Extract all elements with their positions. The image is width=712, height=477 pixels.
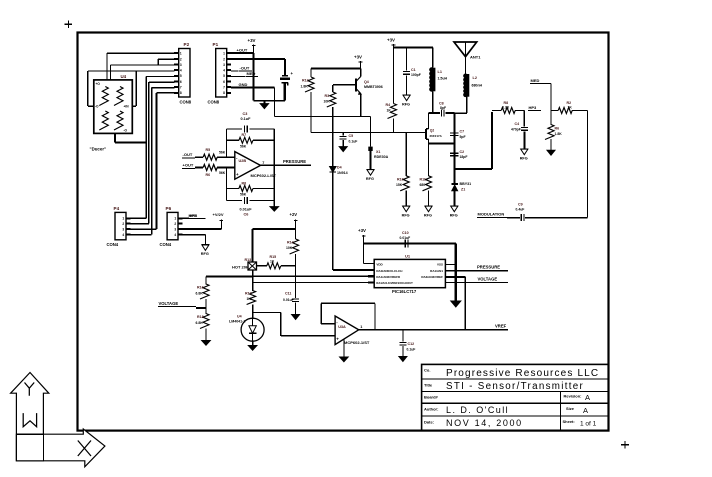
svg-text:1.8K: 1.8K [555, 132, 563, 136]
svg-text:0.01uF: 0.01uF [283, 298, 294, 302]
svg-text:RFG: RFG [201, 252, 209, 256]
svg-text:7: 7 [262, 161, 264, 165]
svg-text:RDE30A: RDE30A [374, 155, 389, 159]
svg-text:1: 1 [180, 52, 182, 56]
svg-text:RA1/AN1: RA1/AN1 [430, 269, 443, 273]
svg-text:56K: 56K [219, 151, 226, 155]
svg-text:PRESSURE: PRESSURE [477, 265, 500, 270]
svg-text:C6: C6 [244, 212, 249, 216]
svg-text:RFG: RFG [450, 214, 458, 218]
svg-text:0.4uF: 0.4uF [516, 207, 525, 211]
svg-text:U4: U4 [121, 74, 127, 79]
svg-text:3.3K: 3.3K [502, 105, 510, 109]
svg-text:MMBT3906: MMBT3906 [364, 85, 383, 89]
svg-text:R16: R16 [197, 286, 204, 290]
svg-text:P2: P2 [184, 42, 190, 47]
svg-text:8: 8 [180, 91, 182, 95]
svg-text:+3V: +3V [354, 54, 362, 59]
svg-text:C3: C3 [243, 112, 248, 116]
svg-text:+OUT: +OUT [237, 48, 248, 53]
svg-text:Q4: Q4 [364, 80, 369, 84]
svg-text:P4: P4 [114, 206, 120, 211]
svg-text:MCP602-1/ST: MCP602-1/ST [344, 340, 370, 345]
svg-text:+2V: +2V [290, 212, 298, 217]
svg-text:-OUT: -OUT [183, 152, 193, 157]
svg-text:R10: R10 [397, 177, 404, 181]
svg-text:C9: C9 [518, 202, 523, 206]
svg-text:CON4: CON4 [107, 242, 119, 247]
svg-text:R6: R6 [206, 173, 211, 177]
svg-text:STI - Sensor/Transmitter: STI - Sensor/Transmitter [446, 381, 584, 392]
svg-text:+3V: +3V [358, 228, 366, 233]
svg-text:R6: R6 [555, 126, 560, 130]
svg-text:RFG: RFG [520, 157, 528, 161]
svg-text:+: + [236, 172, 239, 177]
svg-text:LM4041-1: LM4041-1 [229, 320, 245, 324]
svg-text:56K: 56K [240, 193, 247, 197]
svg-text:+3V: +3V [248, 38, 256, 43]
svg-text:56K: 56K [219, 171, 226, 175]
svg-text:+: + [336, 337, 339, 342]
svg-text:100pF: 100pF [411, 73, 421, 77]
svg-text:P1: P1 [213, 42, 219, 47]
svg-text:8pF: 8pF [440, 106, 446, 110]
svg-text:GND: GND [239, 82, 248, 87]
svg-text:+O: +O [96, 82, 101, 86]
svg-text:3: 3 [174, 228, 176, 232]
svg-text:PRESSURE: PRESSURE [283, 159, 306, 164]
svg-text:Progressive Resources LLC: Progressive Resources LLC [446, 368, 599, 379]
svg-text:680nH: 680nH [472, 84, 483, 88]
svg-text:C8: C8 [439, 102, 444, 106]
svg-text:R13: R13 [245, 258, 252, 262]
svg-text:RA1/AN2/VREFD: RA1/AN2/VREFD [376, 275, 401, 279]
svg-text:HOT 20K: HOT 20K [232, 264, 249, 269]
svg-text:C10: C10 [402, 231, 409, 235]
svg-text:C4: C4 [515, 122, 520, 126]
svg-text:1K: 1K [387, 109, 392, 113]
svg-text:18pF: 18pF [460, 155, 468, 159]
svg-text:L1: L1 [438, 70, 442, 74]
svg-text:6.8K: 6.8K [196, 291, 204, 295]
svg-text:R18: R18 [197, 315, 204, 319]
svg-text:-O: -O [95, 105, 99, 109]
svg-text:+V/2V: +V/2V [213, 212, 224, 217]
svg-text:10K: 10K [324, 100, 331, 104]
svg-text:-OUT: -OUT [240, 65, 250, 70]
svg-text:2: 2 [180, 57, 182, 61]
svg-text:680: 680 [420, 183, 426, 187]
svg-text:HP3: HP3 [190, 213, 199, 218]
svg-text:4: 4 [180, 69, 182, 73]
svg-text:R5: R5 [206, 148, 211, 152]
svg-text:CON8: CON8 [208, 100, 220, 105]
svg-text:VREF: VREF [495, 324, 507, 329]
svg-text:RFG: RFG [402, 214, 410, 218]
svg-text:+OUT: +OUT [183, 163, 194, 168]
svg-text:-O: -O [124, 129, 128, 133]
svg-text:VDD: VDD [376, 263, 383, 267]
svg-text:R14: R14 [287, 241, 294, 245]
svg-text:C1: C1 [411, 68, 416, 72]
svg-text:Co.: Co. [424, 368, 430, 373]
svg-text:Revision:: Revision: [564, 394, 582, 399]
svg-text:2: 2 [122, 222, 124, 226]
svg-text:1: 1 [122, 217, 124, 221]
svg-text:C2: C2 [460, 150, 465, 154]
svg-text:56K: 56K [240, 144, 247, 148]
svg-text:X1: X1 [376, 150, 380, 154]
svg-text:6: 6 [180, 80, 182, 84]
svg-text:Author:: Author: [424, 407, 438, 412]
svg-text:R8: R8 [242, 181, 247, 185]
svg-text:0.01uF: 0.01uF [400, 236, 411, 240]
svg-text:2: 2 [223, 57, 225, 61]
svg-text:U2B: U2B [239, 159, 247, 163]
svg-text:3: 3 [122, 228, 124, 232]
svg-text:8: 8 [223, 91, 225, 95]
svg-text:4: 4 [174, 233, 176, 237]
svg-text:5: 5 [223, 74, 225, 78]
svg-text:1N914: 1N914 [337, 171, 348, 175]
svg-text:1: 1 [223, 52, 225, 56]
svg-text:RA4/ACLK/VREF23/CLKOUT: RA4/ACLK/VREF23/CLKOUT [376, 281, 413, 285]
svg-text:U1: U1 [405, 254, 411, 259]
svg-text:26F217A: 26F217A [430, 134, 443, 138]
svg-text:Board#: Board# [424, 395, 439, 400]
svg-text:7: 7 [223, 86, 225, 90]
svg-text:1: 1 [360, 325, 362, 329]
svg-text:Q2: Q2 [430, 129, 434, 133]
svg-text:RA0/AN0/ULCLCH: RA0/AN0/ULCLCH [376, 269, 402, 273]
svg-text:"Ducer": "Ducer" [90, 147, 107, 152]
svg-text:1 of 1: 1 of 1 [580, 421, 597, 428]
svg-text:VSS: VSS [437, 263, 443, 267]
svg-text:7: 7 [180, 86, 182, 90]
svg-text:+IN: +IN [124, 105, 130, 109]
svg-text:C12: C12 [408, 342, 415, 346]
svg-text:4: 4 [223, 69, 225, 73]
svg-text:0.1uF: 0.1uF [407, 347, 416, 351]
svg-text:1.8K: 1.8K [301, 84, 309, 88]
svg-text:5pF: 5pF [460, 135, 466, 139]
svg-text:Title: Title [424, 383, 433, 388]
svg-text:A: A [585, 393, 590, 402]
svg-text:15K: 15K [396, 183, 403, 187]
svg-text:1K: 1K [270, 259, 275, 263]
svg-text:PIC16LC717: PIC16LC717 [392, 289, 417, 294]
svg-text:BBY31: BBY31 [460, 182, 472, 186]
svg-text:D4: D4 [337, 166, 342, 170]
svg-text:RFG: RFG [402, 103, 410, 107]
svg-text:1: 1 [174, 217, 176, 221]
svg-text:2: 2 [174, 222, 176, 226]
svg-text:VOLTAGE: VOLTAGE [159, 301, 179, 306]
svg-text:Size: Size [566, 406, 575, 411]
svg-text:0.01uF: 0.01uF [240, 208, 253, 212]
svg-text:CON8: CON8 [180, 100, 192, 105]
svg-text:R17: R17 [245, 292, 252, 296]
svg-text:RFG: RFG [366, 177, 374, 181]
svg-text:RFG: RFG [424, 214, 432, 218]
svg-text:HP3: HP3 [529, 105, 538, 110]
svg-text:Sheet:: Sheet: [563, 419, 575, 424]
svg-text:3: 3 [180, 63, 182, 67]
svg-text:10K: 10K [286, 246, 293, 250]
svg-text:470pF: 470pF [511, 127, 521, 131]
svg-text:MED: MED [247, 71, 256, 76]
svg-text:R11: R11 [420, 177, 426, 181]
svg-text:+3V: +3V [387, 37, 395, 42]
svg-text:MODULATION: MODULATION [478, 212, 505, 217]
svg-text:Date:: Date: [424, 420, 434, 425]
svg-text:L. D. O'Cull: L. D. O'Cull [446, 405, 509, 415]
svg-text:6: 6 [223, 80, 225, 84]
svg-text:1K: 1K [247, 297, 252, 301]
svg-text:MCP602-L/ST: MCP602-L/ST [251, 173, 277, 178]
svg-text:C7: C7 [460, 130, 465, 134]
svg-text:C5: C5 [349, 134, 354, 138]
svg-text:0.1uF: 0.1uF [349, 139, 358, 143]
svg-text:MED: MED [531, 78, 540, 83]
svg-text:U4: U4 [237, 315, 242, 319]
svg-text:R7: R7 [242, 133, 247, 137]
svg-text:5: 5 [180, 74, 182, 78]
svg-text:1.5uH: 1.5uH [438, 77, 448, 81]
svg-text:Z1: Z1 [461, 188, 465, 192]
svg-text:4: 4 [122, 233, 124, 237]
svg-text:C11: C11 [285, 292, 291, 296]
svg-text:CON4: CON4 [160, 242, 172, 247]
svg-text:VOLTAGE: VOLTAGE [478, 276, 498, 281]
svg-text:L2: L2 [473, 76, 477, 80]
svg-text:3: 3 [223, 63, 225, 67]
svg-text:NOV 14, 2000: NOV 14, 2000 [446, 418, 523, 428]
svg-text:6.8K: 6.8K [196, 321, 204, 325]
svg-text:P6: P6 [166, 206, 172, 211]
svg-text:ANT1: ANT1 [470, 55, 481, 60]
svg-text:1K: 1K [568, 105, 573, 109]
svg-text:U3A: U3A [338, 325, 346, 329]
svg-text:R4: R4 [386, 103, 391, 107]
svg-text:RA3/AN3/VREF: RA3/AN3/VREF [421, 275, 443, 279]
svg-text:0.1uF: 0.1uF [241, 117, 252, 121]
svg-text:A: A [583, 406, 588, 415]
svg-text:R12: R12 [302, 79, 309, 83]
svg-text:R3: R3 [325, 94, 330, 98]
